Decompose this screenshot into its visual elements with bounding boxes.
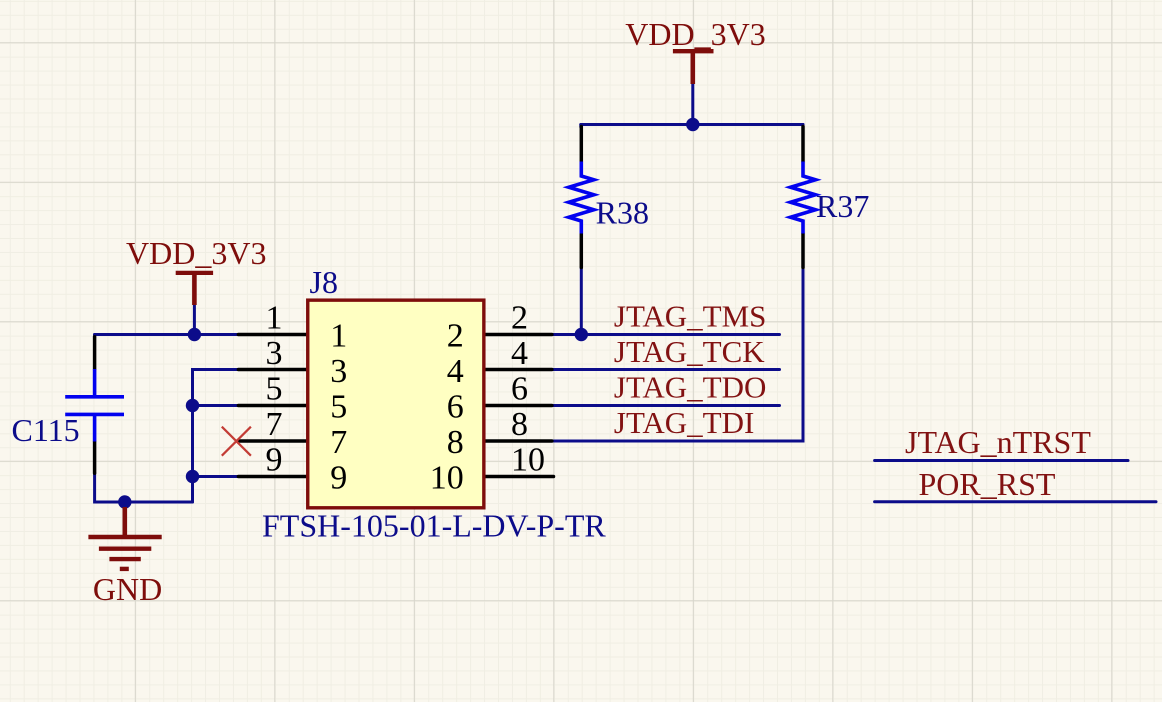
wire R38 bottom to TMS junction bbox=[580, 267, 583, 335]
svg-text:JTAG_nTRST: JTAG_nTRST bbox=[905, 424, 1091, 460]
svg-text:C115: C115 bbox=[12, 412, 80, 448]
pin 8 bbox=[485, 439, 552, 443]
resistor R38 bbox=[569, 162, 594, 234]
junction gnd stem bbox=[118, 495, 131, 508]
svg-text:J8: J8 bbox=[310, 264, 338, 300]
junction pin9 vertical bbox=[186, 470, 199, 483]
wire top rail R38-R37 bbox=[581, 123, 803, 126]
svg-text:10: 10 bbox=[511, 442, 545, 479]
pin C115 top bbox=[93, 337, 97, 369]
junction R38 / TMS bbox=[575, 328, 588, 341]
power symbol VDD_3V3 left bbox=[176, 273, 213, 305]
svg-text:GND: GND bbox=[93, 571, 162, 607]
wire R38 top lead corner bbox=[579, 125, 582, 128]
svg-text:VDD_3V3: VDD_3V3 bbox=[126, 235, 266, 271]
svg-text:3: 3 bbox=[266, 335, 283, 372]
svg-text:1: 1 bbox=[330, 318, 347, 355]
svg-text:9: 9 bbox=[266, 442, 283, 479]
svg-text:JTAG_TDI: JTAG_TDI bbox=[614, 405, 754, 440]
junction VDD right / rail bbox=[686, 118, 699, 131]
svg-text:6: 6 bbox=[511, 371, 528, 408]
svg-text:6: 6 bbox=[447, 389, 464, 426]
svg-text:3: 3 bbox=[330, 353, 347, 390]
pin 6 bbox=[485, 404, 552, 408]
svg-text:POR_RST: POR_RST bbox=[919, 466, 1056, 502]
wire capacitor bottom to gnd corner bbox=[95, 473, 193, 503]
pin 10 bbox=[485, 475, 554, 479]
svg-text:4: 4 bbox=[447, 353, 464, 390]
wire JTAG_nTRST net bbox=[875, 459, 1128, 462]
wire pin5 stub to vertical bbox=[193, 404, 239, 407]
ground symbol GND bbox=[88, 507, 161, 569]
pin 1 bbox=[238, 333, 307, 337]
svg-text:8: 8 bbox=[447, 424, 464, 461]
pin R38 bottom bbox=[580, 234, 584, 268]
svg-text:4: 4 bbox=[511, 335, 528, 372]
capacitor C115 bbox=[65, 369, 124, 442]
pin R37 bottom bbox=[801, 234, 805, 268]
junction pin5 vertical bbox=[186, 399, 199, 412]
pin R38 top bbox=[580, 127, 584, 162]
resistor R37 bbox=[791, 162, 816, 234]
svg-text:2: 2 bbox=[447, 318, 464, 355]
svg-text:5: 5 bbox=[266, 371, 283, 408]
pin 9 bbox=[238, 475, 307, 479]
svg-text:FTSH-105-01-L-DV-P-TR: FTSH-105-01-L-DV-P-TR bbox=[262, 508, 606, 544]
wire POR_RST net bbox=[875, 500, 1156, 503]
wire JTAG_TDI net to R37 bottom bbox=[552, 267, 803, 441]
svg-text:JTAG_TMS: JTAG_TMS bbox=[614, 299, 767, 334]
junction VDD left / pin1 bbox=[188, 328, 201, 341]
power symbol VDD_3V3 right bbox=[673, 51, 714, 84]
svg-text:JTAG_TCK: JTAG_TCK bbox=[614, 334, 765, 369]
pin 4 bbox=[485, 368, 552, 372]
svg-text:5: 5 bbox=[330, 389, 347, 426]
pin 3 bbox=[238, 368, 307, 372]
svg-text:8: 8 bbox=[511, 406, 528, 443]
pin 5 bbox=[238, 404, 307, 408]
svg-text:R38: R38 bbox=[596, 194, 649, 230]
wire JTAG_TMS net bbox=[552, 333, 780, 336]
no-connect X marker on pin 7 bbox=[222, 427, 251, 456]
pin R37 top bbox=[801, 127, 805, 162]
wire JTAG_TDO net bbox=[552, 404, 780, 407]
svg-text:JTAG_TDO: JTAG_TDO bbox=[614, 370, 767, 405]
svg-text:7: 7 bbox=[330, 424, 347, 461]
wire VDD_3V3 left stem to junction bbox=[193, 305, 196, 335]
svg-text:7: 7 bbox=[266, 406, 283, 443]
pin 2 bbox=[485, 333, 552, 337]
wire left vertical to capacitor top bbox=[93, 335, 96, 339]
svg-text:R37: R37 bbox=[816, 188, 869, 224]
wire JTAG_TCK net bbox=[552, 368, 780, 371]
wire R37 top lead corner bbox=[802, 125, 805, 128]
wire VDD_3V3 right stem to rail bbox=[691, 84, 694, 125]
connector J8 body bbox=[308, 300, 484, 508]
wire pin9 stub to vertical bbox=[193, 475, 239, 478]
wire pin1 horizontal net bbox=[95, 333, 239, 336]
svg-text:VDD_3V3: VDD_3V3 bbox=[625, 16, 765, 52]
svg-text:9: 9 bbox=[330, 460, 347, 497]
pins bbox=[95, 127, 803, 477]
svg-text:2: 2 bbox=[511, 300, 528, 337]
pin 7 bbox=[238, 439, 307, 443]
svg-text:1: 1 bbox=[266, 300, 283, 337]
pin C115 bottom bbox=[93, 442, 97, 474]
svg-text:10: 10 bbox=[430, 460, 464, 497]
wire pin3 net and middle vertical bbox=[193, 370, 239, 503]
